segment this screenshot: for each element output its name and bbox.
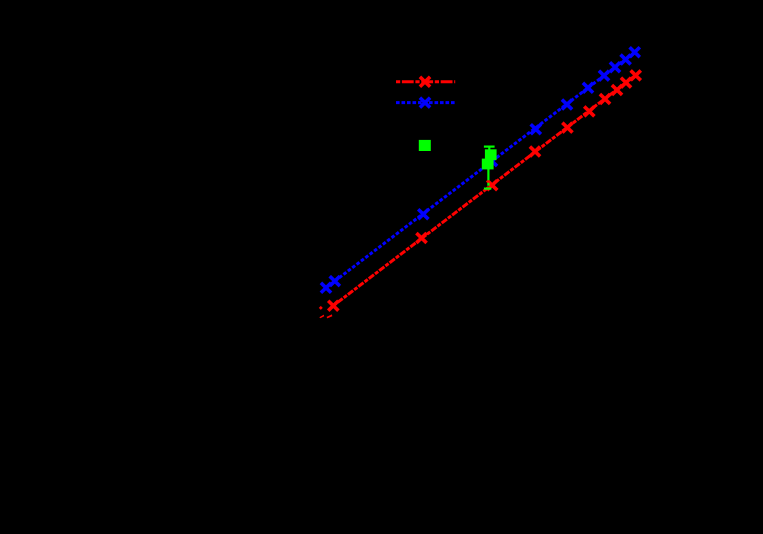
blue marker 9	[610, 62, 620, 72]
blue marker 6	[562, 100, 572, 110]
red clipped first-point fragment: right dash	[327, 314, 333, 318]
red marker 10	[631, 70, 641, 80]
blue marker 3	[418, 209, 428, 219]
blue marker 1	[321, 283, 331, 293]
legend blue dotted sample line	[396, 101, 455, 104]
red clipped first-point fragment: dot	[319, 306, 323, 310]
green point 2 lower error stem (dashed)	[487, 169, 489, 189]
red marker 3	[487, 180, 497, 190]
green point 1 filled square	[485, 149, 497, 160]
green point 2 filled square	[482, 159, 494, 170]
red marker 1	[328, 301, 338, 311]
blue series dotted line	[326, 52, 635, 288]
legend red X marker	[420, 77, 430, 87]
red marker 2	[416, 233, 426, 243]
blue marker 7	[583, 83, 593, 93]
legend blue X marker	[420, 98, 430, 108]
blue marker 8	[599, 71, 609, 81]
green point 1 upper error stem	[488, 147, 490, 151]
red marker 5	[562, 123, 572, 133]
red marker 9	[621, 78, 631, 88]
green point 2 lower error cap	[484, 188, 491, 190]
blue marker 11	[630, 47, 640, 57]
red marker 4	[530, 147, 540, 157]
red clipped first-point fragment: left dash	[319, 315, 324, 319]
legend green filled square marker	[419, 140, 431, 151]
red series dashed line	[333, 75, 635, 306]
red marker 8	[612, 85, 622, 95]
blue marker 4 (hidden behind green)	[487, 156, 497, 166]
blue marker 5	[531, 124, 541, 134]
blue marker 10	[621, 55, 631, 65]
red marker 6	[584, 106, 594, 116]
legend red dashed sample line	[396, 80, 455, 83]
blue marker 2	[330, 276, 340, 286]
green point 1 upper error cap	[484, 146, 495, 148]
red marker 7	[600, 94, 610, 104]
